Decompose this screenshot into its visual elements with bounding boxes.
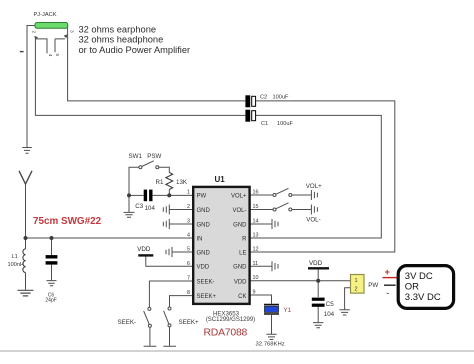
ground (C6) (47, 281, 57, 286)
jack pin number 1 (rotated) (20, 51, 24, 53)
svg-text:3.3V DC: 3.3V DC (405, 292, 441, 303)
capacitor C2 (245, 95, 289, 108)
node C6 junction (50, 236, 54, 240)
svg-text:VOL-: VOL- (306, 216, 320, 223)
svg-text:or to Audio Power Amplifier: or to Audio Power Amplifier (79, 45, 191, 55)
wire jack pin2 down to ground (27, 26, 35, 148)
svg-text:SEEK-: SEEK- (197, 279, 215, 285)
capacitor C5 (312, 298, 335, 318)
switch SEEK- (118, 307, 152, 327)
svg-text:10: 10 (253, 275, 259, 281)
svg-text:14: 14 (253, 219, 259, 225)
wire pin8 SEEK+ to switch (170, 296, 194, 307)
wire C3 right plate to pin1 PW (153, 194, 193, 196)
ground (C5) (313, 323, 323, 328)
svg-text:13K: 13K (176, 179, 188, 186)
pin names right (231, 193, 247, 300)
wire pin11 GND stub (250, 265, 272, 267)
wire C5 bottom to ground (317, 307, 319, 323)
svg-text:104: 104 (324, 311, 335, 318)
inductor L1 (23, 249, 26, 273)
ground sideways pin5 (166, 247, 172, 257)
pin numbers right (253, 190, 259, 296)
wire node to L1 top (25, 238, 27, 249)
capacitor C3 (135, 190, 155, 212)
connector J2 power header (351, 275, 365, 294)
svg-text:32 ohms headphone: 32 ohms headphone (79, 35, 164, 45)
svg-text:2: 2 (187, 204, 190, 210)
svg-text:104: 104 (145, 205, 156, 212)
svg-text:(SC1299/GS1299): (SC1299/GS1299) (206, 317, 255, 323)
svg-text:GND: GND (233, 265, 247, 271)
svg-text:IN: IN (197, 236, 203, 242)
svg-text:13: 13 (253, 233, 259, 239)
svg-text:3: 3 (69, 30, 75, 33)
svg-text:15: 15 (253, 204, 259, 210)
svg-text:U1: U1 (215, 175, 226, 184)
svg-text:PW: PW (197, 193, 207, 199)
ground sideways (VOL+ switch) (311, 190, 317, 200)
svg-text:C5: C5 (326, 301, 334, 308)
wire pin6 VDD (146, 256, 193, 266)
svg-text:2: 2 (355, 286, 358, 292)
power VDD symbol (pin10) (308, 260, 329, 268)
svg-text:1: 1 (355, 278, 358, 284)
battery box 3V DC (398, 266, 453, 309)
wire C1 right inner loop down to pin13 R (250, 115, 381, 238)
wire pin16 switch to ground (292, 194, 311, 196)
wire antenna stem (25, 184, 27, 238)
svg-text:100uF: 100uF (273, 95, 289, 101)
svg-text:12: 12 (253, 247, 259, 253)
svg-text:5: 5 (187, 247, 190, 253)
svg-text:PW: PW (368, 282, 378, 289)
svg-text:R: R (242, 236, 247, 242)
svg-text:4: 4 (47, 54, 53, 57)
wire node A down to ground (128, 195, 130, 212)
wire pin9 CK to crystal Y1 (250, 295, 272, 304)
wire L1 bottom to ground (25, 273, 27, 290)
wire C6 bottom to ground (51, 265, 53, 281)
ground sideways pin11 (272, 261, 278, 271)
node VDD junction (316, 279, 320, 283)
switch VOL+ (pin16) (273, 188, 292, 196)
svg-text:24pF: 24pF (45, 298, 56, 304)
wire antenna node to pin4 IN (26, 237, 194, 239)
svg-text:SEEK+: SEEK+ (197, 294, 217, 300)
ground sideways pin14 (272, 219, 278, 229)
svg-text:GND: GND (197, 208, 211, 214)
ground sideways (VOL- switch) (311, 205, 317, 215)
crystal Y1 (264, 305, 292, 315)
wire Y1 bottom to ground (271, 315, 273, 334)
wire pin7 SEEK- to switch (149, 281, 193, 307)
svg-text:11: 11 (253, 261, 259, 267)
svg-text:VDD: VDD (137, 246, 151, 253)
svg-text:9: 9 (253, 290, 256, 296)
wire node A to C3 left plate (129, 194, 144, 196)
capacitor C6 (45, 255, 57, 304)
ground (Y1) (266, 334, 276, 339)
svg-text:C3: C3 (135, 203, 143, 210)
leader arrow label 4 (36, 39, 47, 53)
svg-text:4: 4 (187, 233, 190, 239)
battery minus line (384, 284, 396, 286)
bottom page divider line (0, 350, 474, 352)
svg-text:PJ-JACK: PJ-JACK (34, 12, 57, 18)
leader arrow label 5 (55, 39, 65, 52)
wire jack pin3 down and right to C2 (68, 26, 246, 101)
wire pin5 GND stub (172, 251, 193, 253)
svg-text:C2: C2 (260, 95, 267, 101)
wire C6 node down to plates (51, 238, 53, 255)
ground (jack sleeve) (22, 148, 32, 154)
wire pin15 switch to ground (292, 209, 311, 211)
svg-text:R1: R1 (156, 179, 164, 186)
ground sideways pin2 (163, 205, 169, 215)
wire pin10 VDD to connector (250, 280, 351, 282)
svg-text:VDD: VDD (309, 260, 323, 267)
wire VDD node down to C5 (317, 281, 319, 297)
svg-text:L1: L1 (12, 254, 18, 260)
svg-text:GND: GND (197, 222, 211, 228)
svg-text:32 ohms earphone: 32 ohms earphone (79, 24, 157, 34)
svg-text:-: - (386, 288, 389, 298)
svg-text:+: + (385, 267, 390, 277)
node A junction (127, 193, 131, 197)
svg-text:Y1: Y1 (284, 307, 292, 314)
wire connector pin2 to ground (345, 288, 351, 310)
arrowhead jack contact 4 (34, 36, 38, 40)
svg-text:1: 1 (187, 190, 190, 196)
svg-text:PSW: PSW (147, 153, 161, 160)
svg-text:5: 5 (54, 54, 60, 57)
svg-text:VOL+: VOL+ (306, 183, 322, 190)
svg-text:2: 2 (31, 31, 37, 34)
svg-text:GND: GND (233, 222, 247, 228)
svg-text:LE: LE (239, 250, 246, 256)
IC U1 body (193, 187, 249, 304)
connector PJ-JACK body (35, 23, 68, 29)
wire VDD symbol stem (317, 270, 319, 281)
arrowhead jack contact 5 (64, 34, 68, 38)
pin numbers left (187, 190, 190, 297)
svg-text:VOL+: VOL+ (231, 193, 247, 199)
svg-text:RDA7088: RDA7088 (203, 327, 247, 338)
wire R1 bottom to node B (168, 190, 170, 196)
svg-text:SEEK+: SEEK+ (179, 319, 200, 326)
svg-text:6: 6 (187, 261, 190, 267)
wire pin16 VOL+ to switch (250, 194, 273, 196)
capacitor C1 (245, 110, 293, 127)
wire pin2 GND stub (169, 209, 193, 211)
wire pin3 GND stub (169, 223, 193, 225)
pin names left (197, 193, 217, 300)
node B junction R1 bottom (167, 193, 171, 197)
wire pin14 GND stub (250, 223, 272, 225)
svg-text:100nH: 100nH (8, 262, 24, 268)
svg-text:100uF: 100uF (277, 121, 293, 127)
wire pin15 VOL- to switch (250, 209, 273, 211)
svg-text:16: 16 (253, 190, 259, 196)
svg-text:GND: GND (197, 250, 211, 256)
switch SEEK+ (164, 307, 199, 327)
svg-text:SEEK-: SEEK- (118, 319, 137, 326)
switch VOL- (pin15) (273, 203, 292, 211)
wire jack contact4 down and right to C1 (35, 39, 245, 116)
ground (connector pin2) (339, 310, 349, 315)
svg-text:7: 7 (187, 276, 190, 282)
ground sideways pin3 (163, 219, 169, 229)
power VDD symbol (pin6) (137, 246, 153, 255)
svg-text:CK: CK (238, 294, 246, 300)
svg-text:VDD: VDD (197, 265, 210, 271)
wire SW1 right terminal to R1 top (159, 167, 170, 172)
antenna ANT1 (19, 171, 32, 184)
svg-text:8: 8 (187, 290, 190, 296)
wire C2 right to outer loop down to pin12 LE (250, 101, 395, 252)
svg-text:3: 3 (187, 219, 190, 225)
battery plus line (383, 277, 398, 279)
wire SEEK- switch bottom to terminal (144, 327, 157, 346)
wire node A up to SW1 left terminal (129, 167, 139, 195)
wire SEEK+ switch bottom to terminal (163, 327, 176, 346)
resistor R1 (166, 173, 173, 190)
svg-text:VOL-: VOL- (232, 208, 246, 214)
svg-text:SW1: SW1 (129, 153, 143, 160)
svg-text:VDD: VDD (234, 279, 247, 285)
switch SW1 PSW (129, 153, 162, 169)
ground (node A) (124, 212, 135, 217)
svg-text:75cm SWG#22: 75cm SWG#22 (33, 216, 102, 227)
svg-text:32.768KHz: 32.768KHz (256, 342, 285, 348)
ground (L1) (18, 290, 34, 296)
svg-text:C1: C1 (261, 121, 268, 127)
node antenna junction (24, 236, 28, 240)
